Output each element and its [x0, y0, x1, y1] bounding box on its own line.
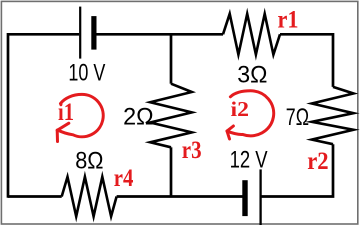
svg-text:10 V: 10 V [68, 60, 105, 87]
svg-text:r3: r3 [182, 137, 202, 164]
svg-text:8Ω: 8Ω [75, 147, 103, 174]
svg-text:r1: r1 [278, 6, 299, 33]
resistor R3 2-ohm zigzag [150, 84, 192, 148]
wire left side and top-left [8, 34, 79, 198]
svg-text:r2: r2 [307, 148, 328, 175]
wire right side below r2 to bottom-right corner [261, 144, 333, 196]
svg-text:i2: i2 [231, 97, 250, 121]
wire middle vertical bottom [170, 147, 173, 196]
wire bottom (12V battery to 8-ohm resistor) [117, 195, 245, 198]
battery B1 10V long plate [79, 7, 81, 59]
wire top-right and right side down to r2 [280, 34, 333, 87]
resistor R1 3-ohm zigzag [223, 14, 280, 55]
resistor R4 8-ohm zigzag [62, 177, 117, 217]
wire middle vertical top [170, 34, 173, 83]
svg-text:7Ω: 7Ω [286, 104, 309, 131]
svg-text:2Ω: 2Ω [123, 103, 154, 130]
battery B2 12V long plate [259, 169, 261, 225]
wire top middle (battery to r1) [96, 33, 223, 36]
mesh current loop i2 arrow [227, 91, 274, 139]
resistor R2 7-ohm zigzag [312, 87, 354, 144]
svg-text:3Ω: 3Ω [237, 62, 267, 89]
battery B2 12V short thick plate [242, 180, 247, 216]
battery B1 10V short thick plate [91, 16, 96, 50]
mesh current loop i1 arrow [57, 94, 103, 141]
svg-text:r4: r4 [114, 165, 134, 192]
svg-text:12 V: 12 V [230, 147, 268, 174]
wire bottom-left (8-ohm resistor to corner) [8, 195, 62, 198]
svg-text:i1: i1 [58, 99, 74, 126]
